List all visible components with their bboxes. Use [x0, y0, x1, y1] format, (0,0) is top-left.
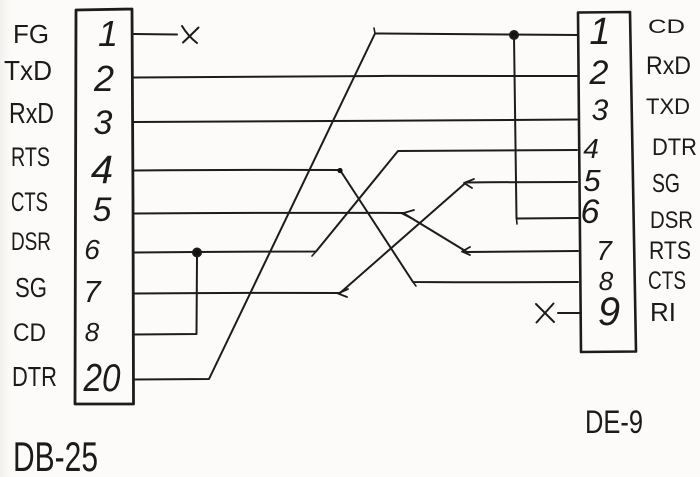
svg-text:2: 2 [589, 54, 609, 92]
svg-text:TxD: TxD [4, 55, 52, 86]
svg-text:DSR: DSR [650, 207, 693, 234]
arrowhead on SG wire at DE-9 pin 5 bend [464, 179, 474, 188]
bend tick on DSR wire [312, 252, 316, 257]
svg-text:6: 6 [84, 234, 100, 265]
svg-text:RI: RI [650, 297, 676, 327]
wire RxD(3) to TxD(3) [134, 120, 577, 123]
wire CD(8) up to DSR junction [134, 256, 197, 335]
svg-text:2: 2 [93, 58, 114, 99]
svg-text:SG: SG [15, 272, 47, 303]
svg-text:RTS: RTS [649, 237, 691, 265]
svg-text:3: 3 [94, 104, 113, 142]
svg-text:9: 9 [598, 290, 620, 334]
svg-text:FG: FG [13, 19, 49, 49]
wire CTS(5) to RTS(7) [134, 213, 578, 252]
svg-text:1: 1 [589, 11, 610, 53]
no-connect X at DE-9 pin 9 [536, 304, 554, 323]
arrowhead on CTS wire at bend [402, 210, 414, 218]
svg-text:7: 7 [83, 274, 102, 309]
wire FG stub (DB-25 pin 1, not connected) [134, 33, 177, 36]
svg-text:DTR: DTR [652, 134, 697, 161]
svg-text:SG: SG [652, 168, 680, 198]
svg-text:CTS: CTS [648, 267, 686, 295]
svg-text:DTR: DTR [12, 361, 57, 392]
connector DE-9 body [578, 12, 636, 352]
junction dot DSR/CD [193, 249, 201, 257]
overshoot tick at vertical bottom [516, 219, 519, 225]
svg-text:DB-25: DB-25 [13, 433, 98, 477]
svg-text:5: 5 [93, 191, 112, 229]
svg-text:7: 7 [596, 235, 613, 266]
arrowhead on SG wire at left bend [338, 289, 348, 297]
svg-text:6: 6 [581, 193, 600, 231]
svg-text:1: 1 [98, 13, 118, 54]
svg-text:20: 20 [83, 357, 121, 400]
svg-text:4: 4 [583, 133, 599, 164]
wire DSR(6) to DTR(4) [134, 150, 577, 253]
svg-text:CD: CD [13, 319, 46, 347]
svg-text:4: 4 [91, 148, 113, 192]
junction dot at DE-9 pin 1 wire [510, 31, 518, 39]
wire DTR(20) to CD(1) [134, 34, 578, 380]
wire SG(7) to SG(5) [134, 182, 577, 294]
bend blob on RTS wire [337, 168, 342, 173]
svg-text:TXD: TXD [646, 94, 690, 119]
no-connect X at DB-25 pin 1 [182, 26, 199, 43]
svg-text:3: 3 [592, 94, 609, 127]
bend tick on RTS wire [413, 282, 416, 286]
connector DB-25 body [75, 9, 134, 404]
svg-text:8: 8 [85, 317, 100, 347]
svg-text:CTS: CTS [11, 187, 48, 217]
svg-text:DE-9: DE-9 [585, 404, 643, 440]
wire junction down to DSR(6) of DE-9 [514, 36, 578, 219]
svg-text:RxD: RxD [646, 52, 691, 80]
wire RI stub (DE-9 pin 9, not connected) [558, 312, 581, 314]
svg-text:CD: CD [648, 17, 685, 38]
svg-text:RTS: RTS [11, 142, 50, 172]
svg-text:DSR: DSR [11, 228, 51, 256]
wire RTS(4) to CTS(8) [134, 170, 578, 282]
svg-text:RxD: RxD [9, 98, 54, 130]
wire TxD(2) to RxD(2) [134, 76, 577, 78]
arrowhead at DE-9 pin 7 bend [462, 247, 470, 255]
overshoot tick at diagonal top [374, 28, 375, 34]
